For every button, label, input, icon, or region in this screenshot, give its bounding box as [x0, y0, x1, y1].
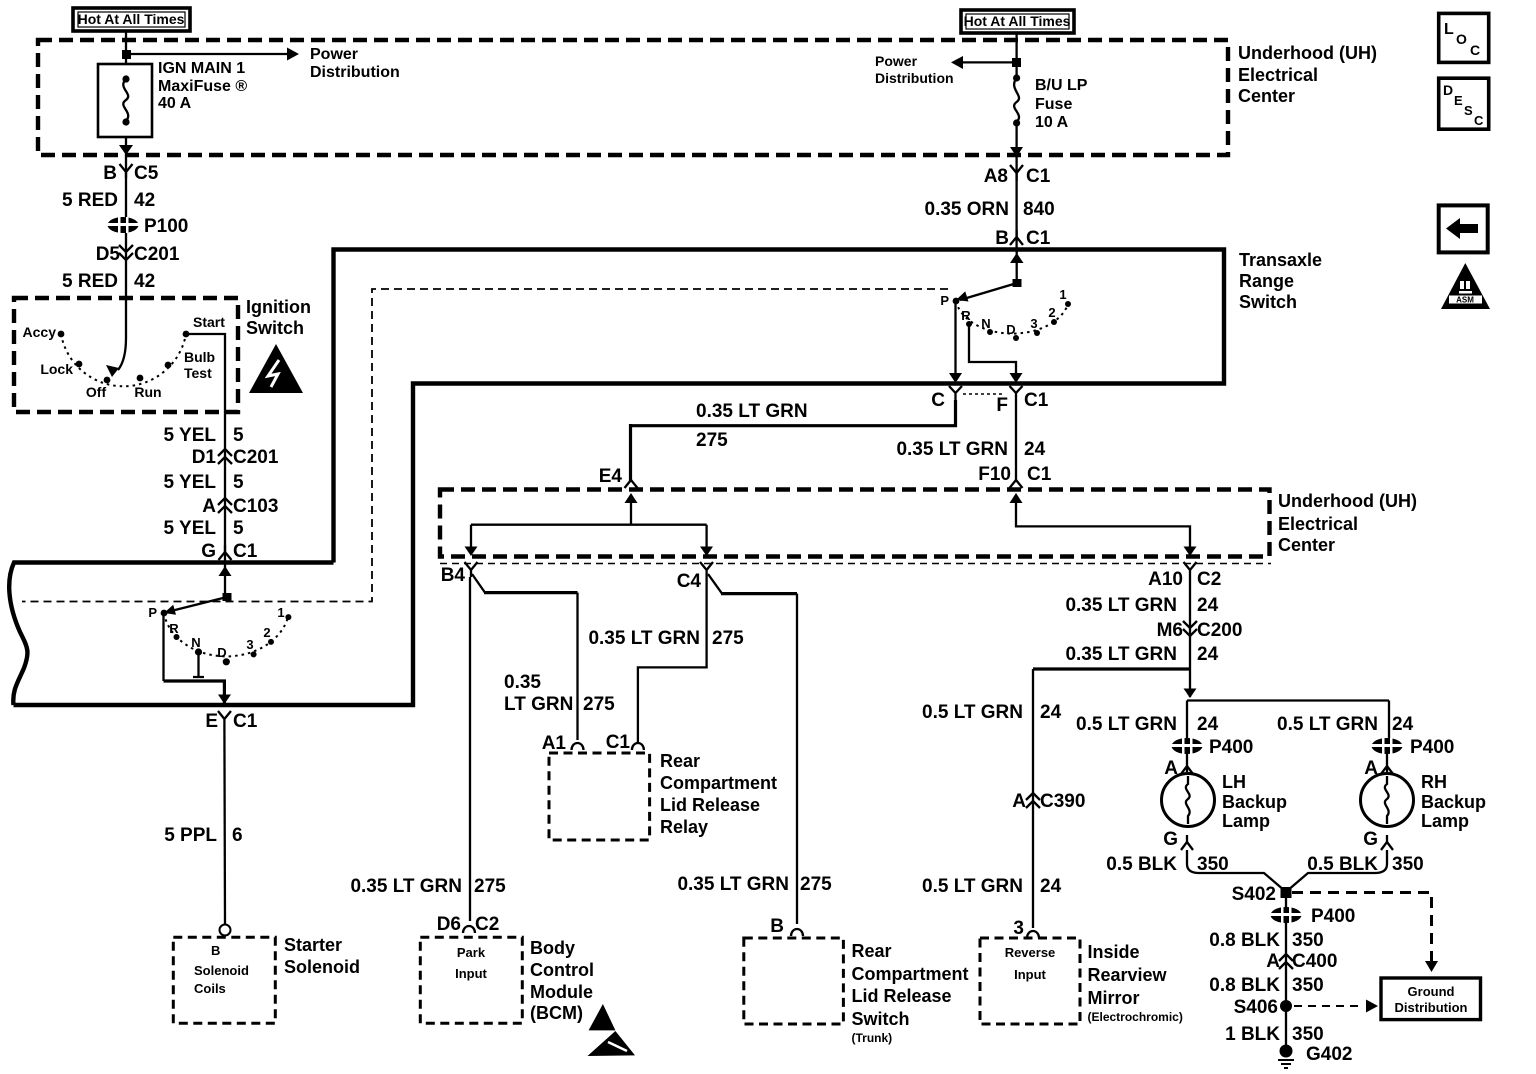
svg-text:D1: D1 [192, 447, 217, 468]
svg-text:R: R [961, 308, 971, 323]
label Starter Solenoid [284, 935, 360, 977]
wire label 0.5 BLK 350 (RH) [1307, 854, 1423, 875]
position arc dotted (lower switch) [164, 613, 288, 656]
wire label 5 RED 42 (second) [62, 271, 155, 292]
wire label 0.5 LT GRN 24 (LH) [1076, 714, 1219, 735]
svg-text:5 RED: 5 RED [62, 190, 118, 211]
svg-text:C201: C201 [233, 447, 279, 468]
svg-text:Center: Center [1278, 535, 1335, 555]
svg-text:P400: P400 [1410, 737, 1454, 758]
ground distribution box [1381, 978, 1481, 1020]
svg-text:Inside: Inside [1088, 942, 1140, 962]
pin B (trunk switch) [770, 916, 803, 937]
icon warning triangle [1441, 263, 1490, 309]
wire C exit to E4 (0.35 LT GRN 275) [631, 400, 956, 481]
arrow entering lower switch view (G C1 wire) [219, 566, 232, 576]
svg-text:2: 2 [263, 625, 270, 640]
body control module box (dashed) [420, 937, 522, 1023]
RH backup lamp [1361, 774, 1414, 827]
svg-text:Electrical: Electrical [1278, 514, 1358, 534]
wire F to F10 (0.35 LT GRN 24) [1015, 400, 1017, 481]
wire label 0.5 LT GRN 24 (mirror branch 2) [922, 876, 1062, 897]
svg-text:E: E [205, 711, 218, 732]
label Bulb Test [184, 349, 215, 381]
inline connector P400 (ground) [1270, 906, 1355, 927]
label Power Distribution (left) [310, 46, 400, 81]
svg-text:0.35 LT GRN: 0.35 LT GRN [696, 401, 808, 422]
svg-text:5 PPL: 5 PPL [164, 825, 217, 846]
svg-text:3: 3 [1013, 918, 1024, 939]
svg-text:C201: C201 [134, 244, 180, 265]
svg-text:Electrical: Electrical [1238, 65, 1318, 85]
svg-text:42: 42 [134, 190, 155, 211]
svg-text:10 A: 10 A [1035, 114, 1069, 131]
pin E connector C1 [205, 711, 257, 732]
arrow F10 wire entering UH box 2 [1010, 493, 1023, 503]
svg-text:C2: C2 [1197, 569, 1221, 590]
pin C connector C1 [931, 386, 962, 411]
svg-text:O: O [1456, 31, 1467, 47]
pin A8 connector C1 [984, 165, 1051, 187]
svg-text:24: 24 [1392, 714, 1414, 735]
Underhood (UH) Electrical Center box 1 (dashed) [38, 40, 1228, 155]
label LH Backup Lamp [1222, 772, 1287, 831]
svg-text:Lock: Lock [40, 361, 73, 377]
label box Hot At All Times (left) [73, 8, 190, 31]
warning triangle (ignition switch) [249, 344, 303, 393]
wire fuse B/U LP to transaxle range switch [1015, 123, 1017, 250]
pin B connector C1 (transaxle range switch) [995, 228, 1050, 249]
svg-text:Control: Control [530, 960, 594, 980]
position labels P R N D 3 2 1 (upper switch) [940, 287, 1066, 337]
svg-text:275: 275 [583, 694, 615, 715]
svg-text:Module: Module [530, 982, 593, 1002]
svg-text:Distribution: Distribution [1395, 1000, 1468, 1015]
svg-text:C1: C1 [1027, 464, 1052, 485]
svg-text:24: 24 [1040, 702, 1062, 723]
svg-text:Backup: Backup [1421, 792, 1486, 812]
pin 3 (inside rearview mirror) [1013, 918, 1039, 939]
svg-text:3: 3 [1030, 316, 1037, 331]
svg-text:C: C [1470, 42, 1480, 58]
wire branch junction to reverse input [1033, 667, 1190, 670]
wiper arm to P (upper switch) [960, 283, 1017, 300]
pin D6 connector C2 (BCM) [437, 914, 500, 935]
dashed link line between both switch views [22, 289, 948, 602]
svg-text:Power: Power [875, 53, 918, 69]
svg-text:S: S [1464, 103, 1473, 118]
svg-text:P400: P400 [1311, 906, 1355, 927]
wire label 0.5 LT GRN 24 (mirror branch 1) [922, 702, 1062, 723]
svg-text:Starter: Starter [284, 935, 342, 955]
pin D1 connector C201 [192, 447, 279, 468]
svg-text:0.35 LT GRN: 0.35 LT GRN [896, 439, 1008, 460]
wire S402 down to G402 [1285, 898, 1287, 1045]
svg-text:(BCM): (BCM) [530, 1003, 583, 1023]
wire label 5 YEL 5 (2) [164, 472, 244, 493]
splice S402 [1232, 884, 1292, 905]
svg-text:Bulb: Bulb [184, 349, 215, 365]
svg-text:P: P [148, 605, 157, 620]
pin C4 connector [677, 562, 713, 592]
LH backup lamp [1162, 774, 1215, 827]
svg-text:Run: Run [134, 384, 161, 400]
svg-text:42: 42 [134, 271, 155, 292]
svg-text:Backup: Backup [1222, 792, 1287, 812]
pin D5 connector C201 [96, 244, 180, 265]
wire B4 branch to relay A1 [472, 574, 485, 593]
svg-text:C: C [931, 390, 945, 411]
svg-text:5: 5 [233, 518, 244, 539]
svg-text:Solenoid: Solenoid [284, 957, 360, 977]
svg-text:B: B [103, 163, 117, 184]
svg-text:0.5 LT GRN: 0.5 LT GRN [1076, 714, 1177, 735]
fuse IGN MAIN 1 MaxiFuse 40 A [98, 60, 247, 137]
svg-text:S402: S402 [1232, 884, 1276, 905]
rear compartment lid release switch box (dashed) [744, 938, 844, 1024]
label B / Solenoid Coils (inside starter solenoid) [194, 943, 249, 996]
pin B4 connector [441, 562, 478, 586]
svg-text:B/U LP: B/U LP [1035, 77, 1088, 94]
svg-text:A: A [1012, 791, 1026, 812]
wire G to wiper pivot (lower switch) [224, 564, 226, 597]
label Body Control Module (BCM) [530, 938, 594, 1023]
svg-text:5 YEL: 5 YEL [164, 425, 217, 446]
wire P400 to LH lamp [1186, 752, 1188, 772]
svg-text:D6: D6 [437, 914, 461, 935]
svg-text:350: 350 [1292, 1024, 1324, 1045]
inline connector P400 (LH) [1171, 737, 1253, 758]
wire label 1 BLK 350 [1225, 1024, 1324, 1045]
svg-text:1 BLK: 1 BLK [1225, 1024, 1280, 1045]
wiper pivot node (upper switch) [1013, 279, 1022, 287]
inline connector P100 [107, 216, 188, 237]
svg-text:A: A [202, 496, 216, 517]
svg-text:0.35 ORN: 0.35 ORN [925, 199, 1009, 220]
svg-text:B: B [995, 228, 1009, 249]
svg-text:D5: D5 [96, 244, 121, 265]
svg-text:G402: G402 [1306, 1044, 1352, 1065]
svg-text:Hot At All Times: Hot At All Times [964, 13, 1071, 29]
inline connector P400 (RH) [1371, 737, 1454, 758]
ground G402 [1278, 1044, 1352, 1068]
svg-text:0.5 LT GRN: 0.5 LT GRN [1277, 714, 1378, 735]
arrow E exit [218, 695, 231, 705]
rear compartment lid release relay box (dashed) [549, 753, 650, 840]
svg-text:0.35 LT GRN: 0.35 LT GRN [1065, 644, 1177, 665]
svg-text:24: 24 [1197, 714, 1219, 735]
svg-text:1: 1 [277, 605, 284, 620]
svg-text:A10: A10 [1148, 569, 1183, 590]
wire to E exit (lower switch) [164, 681, 225, 703]
svg-text:E4: E4 [599, 466, 623, 487]
connector face dotted line C1 [963, 393, 1004, 395]
arrow F exit [1010, 373, 1023, 383]
pin G connector C1 [201, 541, 258, 562]
svg-text:Distribution: Distribution [875, 70, 954, 86]
svg-text:5 YEL: 5 YEL [164, 472, 217, 493]
svg-text:Input: Input [1014, 967, 1046, 982]
svg-text:5 YEL: 5 YEL [164, 518, 217, 539]
svg-text:C390: C390 [1040, 791, 1085, 812]
svg-text:Rearview: Rearview [1088, 965, 1168, 985]
svg-text:0.35 LT GRN: 0.35 LT GRN [1065, 595, 1177, 616]
svg-text:G: G [1163, 829, 1178, 850]
svg-text:350: 350 [1292, 930, 1324, 951]
arrow entering switch box top (B C1 wire) [1010, 253, 1024, 263]
ignition switch box (dashed) [14, 298, 238, 412]
Underhood (UH) Electrical Center label (top right) [1238, 43, 1377, 106]
svg-text:Rear: Rear [660, 751, 700, 771]
svg-text:E: E [1454, 93, 1463, 108]
wire E to starter solenoid (5 PPL 6) [223, 726, 226, 924]
wire label 0.35 LT GRN 24 [896, 439, 1045, 460]
svg-text:Reverse: Reverse [1005, 945, 1056, 960]
arrow E4 wire entering UH box 2 [625, 493, 638, 503]
ESD warning triangles (BCM) [588, 1004, 636, 1056]
dashed ground distribution branch from S402 [1292, 893, 1432, 963]
svg-text:0.5 LT GRN: 0.5 LT GRN [922, 702, 1023, 723]
svg-text:0.5 LT GRN: 0.5 LT GRN [922, 876, 1023, 897]
svg-text:B: B [770, 916, 784, 937]
svg-text:Switch: Switch [246, 318, 304, 338]
Underhood (UH) Electrical Center label (middle right) [1278, 491, 1417, 555]
svg-text:C5: C5 [134, 163, 159, 184]
svg-text:C4: C4 [677, 571, 702, 592]
svg-text:LT GRN: LT GRN [504, 694, 573, 715]
wire label 0.35 LT GRN 275 (trunk switch wire) [677, 874, 832, 895]
svg-text:Underhood (UH): Underhood (UH) [1278, 491, 1417, 511]
wire label 5 YEL 5 (3) [164, 518, 244, 539]
label Ignition Switch [246, 297, 311, 338]
svg-text:N: N [191, 635, 200, 650]
svg-text:Compartment: Compartment [660, 773, 777, 793]
ignition switch position contacts [58, 331, 190, 384]
svg-text:Lamp: Lamp [1222, 811, 1270, 831]
arrow C exit [949, 373, 962, 383]
svg-text:350: 350 [1392, 854, 1424, 875]
svg-text:Lid Release: Lid Release [660, 795, 760, 815]
pin A connector C103 [202, 496, 278, 517]
svg-text:C103: C103 [233, 496, 278, 517]
position labels P R N D 3 2 1 (lower switch) [148, 605, 284, 660]
svg-text:P400: P400 [1209, 737, 1253, 758]
pin A1 (relay) [542, 733, 584, 754]
wiper arm to P (lower switch) [167, 597, 227, 612]
svg-text:N: N [981, 316, 990, 331]
wire RH lamp ground to S402 [1287, 850, 1387, 891]
icon back arrow box [1439, 205, 1488, 252]
svg-text:5: 5 [233, 425, 244, 446]
wire E4 to B4/C4 split [471, 496, 707, 548]
arrow C4 exit [700, 547, 713, 557]
svg-text:A8: A8 [984, 166, 1008, 187]
svg-text:D: D [217, 645, 226, 660]
wire from Start contact down to transaxle range switch [186, 334, 225, 562]
svg-text:0.8 BLK: 0.8 BLK [1209, 930, 1280, 951]
wire power distribution branch (right) [962, 61, 1017, 63]
svg-text:A1: A1 [542, 733, 567, 754]
svg-text:24: 24 [1197, 644, 1219, 665]
wire label 0.8 BLK 350 (2) [1209, 975, 1323, 996]
svg-text:6: 6 [232, 825, 243, 846]
svg-text:D: D [1443, 82, 1453, 98]
svg-text:Switch: Switch [1239, 292, 1297, 312]
svg-text:Distribution: Distribution [310, 64, 400, 81]
svg-text:Center: Center [1238, 86, 1295, 106]
wire R contact to F exit (upper switch) [969, 326, 1016, 380]
svg-text:B4: B4 [441, 565, 466, 586]
svg-text:P100: P100 [144, 216, 188, 237]
svg-text:24: 24 [1040, 876, 1062, 897]
svg-text:0.35 LT GRN: 0.35 LT GRN [677, 874, 789, 895]
ignition switch position arc (dotted) [61, 334, 186, 386]
svg-text:LH: LH [1222, 772, 1246, 792]
icon DESC box [1439, 78, 1489, 129]
svg-text:C1: C1 [233, 711, 258, 732]
svg-text:Transaxle: Transaxle [1239, 250, 1322, 270]
wire label 0.5 LT GRN 24 (RH) [1277, 714, 1414, 735]
svg-text:(Trunk): (Trunk) [852, 1031, 893, 1045]
wire C4 to relay C1 [638, 577, 707, 743]
svg-text:P: P [940, 293, 949, 308]
pin F10 connector C1 [978, 464, 1051, 488]
pin A (RH backup lamp) [1364, 758, 1393, 779]
svg-text:Rear: Rear [852, 941, 892, 961]
svg-text:0.35 LT GRN: 0.35 LT GRN [588, 628, 700, 649]
svg-text:0.35 LT GRN: 0.35 LT GRN [350, 876, 462, 897]
svg-text:R: R [169, 621, 179, 636]
pin B connector C5 [103, 163, 158, 184]
pin E4 (UH center) [599, 466, 638, 488]
svg-text:5 RED: 5 RED [62, 271, 118, 292]
svg-text:(Electrochromic): (Electrochromic) [1088, 1010, 1183, 1024]
svg-text:Ground: Ground [1408, 984, 1455, 999]
wire P contact down (lower switch) [162, 615, 164, 681]
label Inside Rearview Mirror (Electrochromic) [1088, 942, 1183, 1024]
svg-text:Underhood (UH): Underhood (UH) [1238, 43, 1377, 63]
wiper pivot node (lower switch) [223, 593, 232, 601]
pin G (LH backup lamp) [1163, 829, 1193, 850]
svg-text:IGN MAIN 1: IGN MAIN 1 [158, 60, 245, 77]
svg-text:275: 275 [712, 628, 744, 649]
wire label 0.35 LT GRN 275 (relay C1 wire) [588, 628, 744, 649]
icon LOC box [1439, 13, 1489, 62]
label Rear Compartment Lid Release Switch (Trunk) [852, 941, 969, 1045]
pin A10 connector C2 [1148, 562, 1221, 590]
svg-text:C1: C1 [1026, 166, 1051, 187]
connector face thin dashed line below UH box 2 [440, 563, 1271, 565]
wire power distribution branch (left) [126, 53, 288, 55]
svg-text:Solenoid: Solenoid [194, 963, 249, 978]
label box Hot At All Times (right) [961, 10, 1074, 33]
label Transaxle Range Switch [1239, 250, 1322, 312]
svg-text:C1: C1 [1024, 390, 1049, 411]
svg-text:3: 3 [246, 637, 253, 652]
svg-text:350: 350 [1292, 975, 1324, 996]
wire label 5 YEL 5 (1) [164, 425, 244, 446]
svg-text:5: 5 [233, 472, 244, 493]
wire lamp feed bus [1187, 699, 1389, 701]
svg-text:1: 1 [1059, 287, 1066, 302]
label Park Input (inside BCM) [455, 945, 487, 981]
wire label 5 RED 42 [62, 190, 155, 211]
svg-text:Compartment: Compartment [852, 964, 969, 984]
terminal at starter solenoid [220, 925, 231, 936]
wire P400 to RH lamp [1386, 752, 1388, 772]
pin A connector C400 [1266, 951, 1337, 972]
wire fuse to ignition switch [125, 137, 127, 298]
svg-text:F10: F10 [978, 464, 1011, 485]
svg-text:24: 24 [1024, 439, 1046, 460]
wire reverse input branch down [1032, 669, 1034, 928]
label Reverse Input (inside mirror box) [1005, 945, 1056, 982]
svg-text:Hot At All Times: Hot At All Times [78, 11, 185, 27]
svg-text:Range: Range [1239, 271, 1294, 291]
wire from Hot At All Times to fuse B/U LP [1015, 33, 1017, 77]
pin M6 connector C200 [1157, 620, 1243, 641]
wire A10 down (0.35 LT GRN 24) [1189, 577, 1191, 697]
wire label 5 PPL 6 [164, 825, 242, 846]
wire from Hot At All Times to fuse IGN MAIN 1 [125, 31, 127, 64]
wire N contact stub (lower switch) [193, 654, 204, 677]
svg-text:Fuse: Fuse [1035, 96, 1072, 113]
svg-text:Relay: Relay [660, 817, 708, 837]
arrow into lamp feed node [1184, 689, 1197, 699]
wire C4 branch to trunk switch [708, 574, 722, 594]
arrow exit UH box 1 (right) [1010, 147, 1023, 157]
wire F10 to A10 [1016, 496, 1190, 548]
svg-text:RH: RH [1421, 772, 1447, 792]
svg-text:0.5 BLK: 0.5 BLK [1106, 854, 1177, 875]
svg-text:Park: Park [457, 945, 486, 960]
label Power Distribution (right) [875, 53, 954, 86]
svg-text:C: C [1474, 113, 1484, 128]
arrow exit UH box 1 (left) [119, 145, 133, 155]
wire label 0.8 BLK 350 (1) [1209, 930, 1323, 951]
svg-text:ASM: ASM [1456, 296, 1474, 305]
svg-text:C1: C1 [1026, 228, 1051, 249]
arrow A10 exit [1184, 547, 1197, 557]
svg-text:A: A [1266, 951, 1280, 972]
svg-text:G: G [1363, 829, 1378, 850]
svg-text:D: D [1006, 322, 1015, 337]
position arc dotted (upper switch) [956, 301, 1068, 334]
svg-text:M6: M6 [1157, 620, 1183, 641]
pin C1 (relay) [606, 732, 644, 753]
svg-text:C1: C1 [233, 541, 258, 562]
fuse B/U LP 10 A [1013, 74, 1088, 131]
svg-text:Off: Off [86, 384, 107, 400]
svg-text:0.8 BLK: 0.8 BLK [1209, 975, 1280, 996]
pin A connector C390 [1012, 791, 1085, 812]
svg-text:Mirror: Mirror [1088, 988, 1140, 1008]
svg-text:Lamp: Lamp [1421, 811, 1469, 831]
wire P contact to C exit (upper switch) [954, 303, 956, 380]
wire B4 to BCM (0.35 LT GRN 275) [469, 577, 471, 921]
svg-text:Switch: Switch [852, 1009, 910, 1029]
wire label 0.35 LT GRN 24 (2) [1065, 644, 1218, 665]
svg-text:40 A: 40 A [158, 95, 192, 112]
svg-text:B: B [211, 943, 220, 958]
splice S406 [1234, 997, 1292, 1018]
wire B to wiper pivot (upper switch) [1016, 250, 1018, 283]
wire label 0.35 LT GRN 275 (BCM wire) [350, 876, 506, 897]
svg-text:G: G [201, 541, 216, 562]
svg-text:L: L [1444, 21, 1454, 38]
node junction at power distribution branch (left) [122, 50, 131, 59]
svg-text:C200: C200 [1197, 620, 1242, 641]
